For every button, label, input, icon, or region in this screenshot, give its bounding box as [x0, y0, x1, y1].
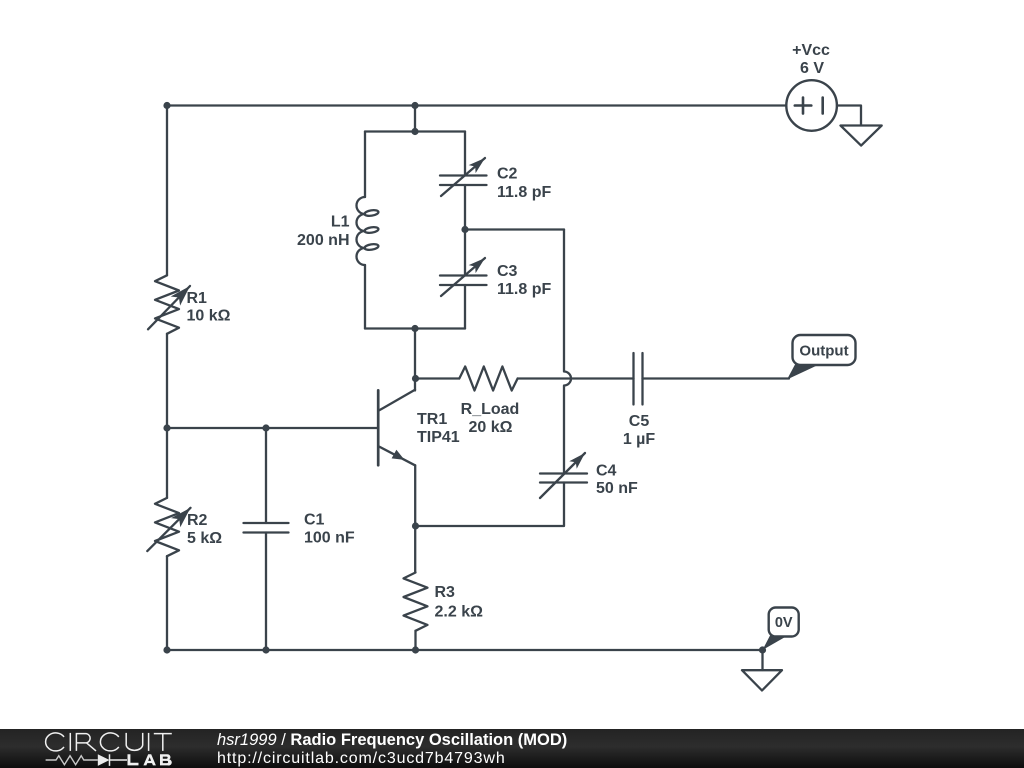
wire collector to R_Load — [416, 377, 460, 379]
svg-text:R3: R3 — [435, 584, 456, 601]
resistor R2 (variable, 5 k) — [147, 498, 190, 556]
inductor L1 (200 nH) — [357, 197, 379, 265]
label L1 200 nH — [297, 214, 350, 250]
wire tank top — [365, 130, 465, 132]
capacitor C2 (variable, 11.8 pF) — [440, 158, 487, 196]
wire left vertical upper (Vcc rail to R1) — [166, 106, 168, 276]
wire R_Load to C5 — [518, 377, 634, 379]
wire C1 upper lead — [265, 428, 267, 523]
wire emitter drop — [414, 465, 416, 572]
svg-text:11.8 pF: 11.8 pF — [497, 184, 551, 201]
wire C2-C3 middle — [464, 185, 466, 276]
wire top rail — [167, 104, 786, 106]
voltage source V1 (+Vcc 6 V) — [786, 80, 837, 131]
svg-text:R1: R1 — [187, 290, 208, 307]
transistor TR1 (TIP41 NPN) — [378, 390, 415, 466]
logo LAB lettering — [128, 754, 172, 765]
label R3 2.2 kOhm — [435, 584, 484, 621]
resistor R1 (variable, 10 k) — [148, 275, 190, 334]
svg-text:R2: R2 — [187, 512, 208, 529]
wire L1 top lead — [364, 132, 366, 198]
svg-text:R_Load: R_Load — [461, 401, 520, 418]
capacitor C4 (variable, 50 nF) — [540, 453, 587, 498]
svg-text:+Vcc: +Vcc — [792, 42, 830, 59]
svg-text:C3: C3 — [497, 263, 518, 280]
label C5 1 uF — [623, 413, 656, 448]
svg-text:0V: 0V — [775, 615, 793, 631]
svg-text:L1: L1 — [331, 214, 350, 231]
wire R3 to bottom rail — [414, 631, 416, 650]
svg-text:1 µF: 1 µF — [623, 431, 656, 448]
label TR1 TIP41 — [417, 411, 460, 446]
wire Vcc source to ground — [837, 106, 861, 126]
svg-text:11.8 pF: 11.8 pF — [497, 281, 551, 298]
ground (bottom right) — [742, 670, 782, 690]
logo resistor-diode squiggle — [46, 754, 127, 766]
svg-text:5 kΩ: 5 kΩ — [187, 530, 222, 547]
svg-text:50 nF: 50 nF — [596, 480, 638, 497]
wire C4 branch upper with hop over output wire — [564, 230, 571, 474]
wire 0V stub — [761, 650, 763, 670]
svg-text:C1: C1 — [304, 512, 325, 529]
svg-text:10 kΩ: 10 kΩ — [187, 308, 231, 325]
capacitor C1 (100 nF) — [244, 523, 289, 533]
svg-text:TIP41: TIP41 — [417, 429, 460, 446]
svg-text:C2: C2 — [497, 166, 518, 183]
label C3 11.8 pF — [497, 263, 551, 298]
capacitor C5 (1 uF) — [634, 353, 643, 405]
wire C1 lower lead — [265, 533, 267, 651]
node junction dots — [163, 102, 766, 654]
label R2 5 kOhm — [187, 512, 222, 547]
wire C4 bottom lead to emitter node — [416, 483, 565, 527]
svg-text:200 nH: 200 nH — [297, 232, 349, 249]
wire Vcc rail drop to tank — [414, 106, 416, 132]
label R_Load 20 kOhm — [461, 401, 520, 436]
CircuitLab logo lettering CIRCUIT — [46, 733, 172, 751]
node 0V flag — [763, 608, 799, 651]
svg-text:100 nF: 100 nF — [304, 530, 355, 547]
svg-text:C4: C4 — [596, 463, 617, 480]
svg-text:2.2 kΩ: 2.2 kΩ — [435, 604, 484, 621]
svg-text:20 kΩ: 20 kΩ — [469, 419, 513, 436]
svg-text:6 V: 6 V — [800, 60, 824, 77]
capacitor C3 (variable, 11.8 pF) — [440, 258, 487, 296]
footer bar — [0, 729, 1024, 768]
label R1 10 kOhm — [187, 290, 231, 325]
label C4 50 nF — [596, 463, 638, 498]
wire base rail (left column to TR1 base) — [167, 427, 378, 429]
resistor R_Load (20 k) — [459, 367, 517, 391]
wire L1 bottom lead — [364, 265, 366, 329]
wire tank tap to C4 branch — [465, 228, 564, 230]
ground (top right) — [841, 126, 882, 146]
wire bottom rail — [167, 649, 763, 651]
label C1 100 nF — [304, 512, 355, 547]
wire collector drop — [414, 329, 416, 391]
footer title text — [217, 731, 567, 750]
svg-text:C5: C5 — [629, 413, 650, 430]
resistor R3 (2.2 k) — [404, 573, 428, 631]
svg-text:Output: Output — [799, 343, 848, 360]
wire tank bottom — [365, 327, 465, 329]
wire C3 bottom lead — [464, 285, 466, 329]
wire C2 top lead — [464, 132, 466, 176]
node Output flag — [787, 335, 856, 380]
wire left vertical middle (R1 to R2) — [166, 334, 168, 498]
label +Vcc 6 V — [792, 42, 830, 77]
label C2 11.8 pF — [497, 166, 551, 202]
svg-text:TR1: TR1 — [417, 411, 447, 428]
wire left vertical lower (R2 to bottom rail) — [166, 556, 168, 650]
wire C5 to output flag — [643, 377, 790, 379]
